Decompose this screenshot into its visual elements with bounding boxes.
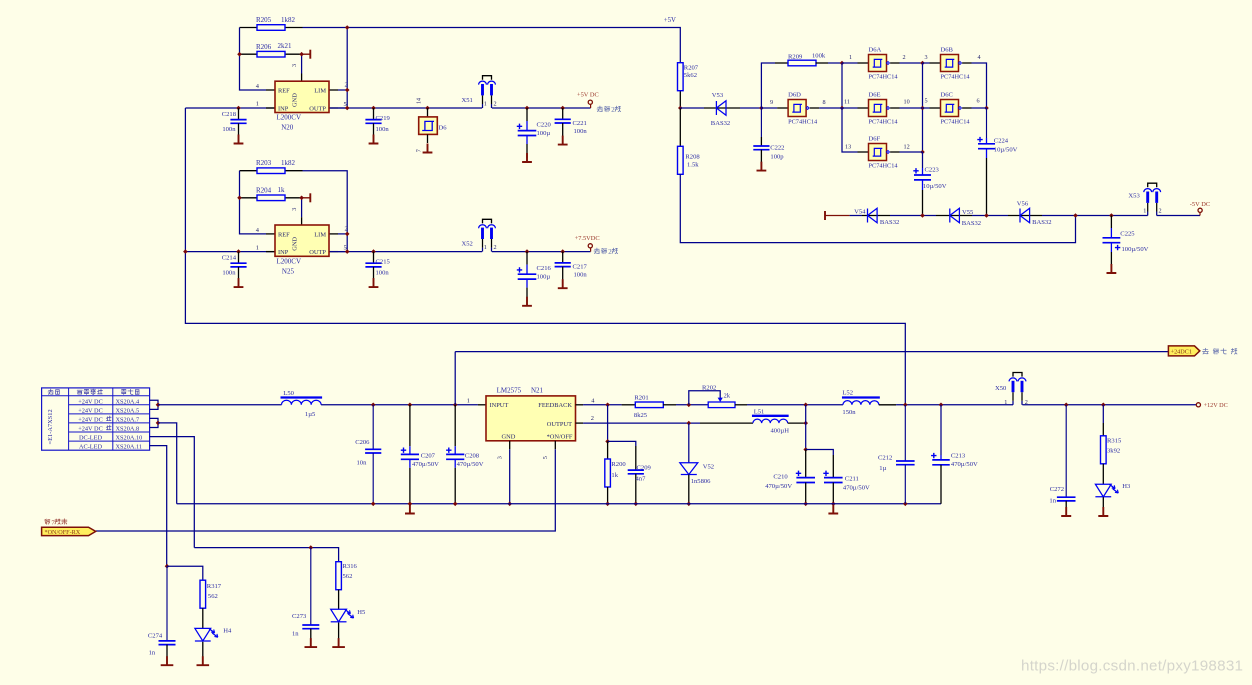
wire bbox=[841, 63, 843, 108]
svg-text:10µ/50V: 10µ/50V bbox=[923, 183, 947, 190]
junction bbox=[1064, 403, 1069, 408]
junction bbox=[687, 502, 692, 507]
resistor R316 bbox=[336, 562, 342, 590]
capacitor C273 bbox=[292, 548, 319, 639]
wire bbox=[890, 215, 936, 217]
svg-text:C215: C215 bbox=[376, 259, 391, 266]
junction bbox=[560, 249, 565, 254]
wire bbox=[704, 107, 740, 109]
svg-text:1: 1 bbox=[256, 101, 259, 108]
svg-text:+24V DC: +24V DC bbox=[78, 398, 103, 405]
diode V53 bbox=[716, 101, 726, 116]
junction bbox=[803, 502, 808, 507]
Schmitt inverter D6B bbox=[930, 55, 972, 72]
wire bbox=[740, 107, 761, 109]
power flag +24DC1 bbox=[1168, 346, 1199, 356]
svg-text:X50: X50 bbox=[995, 385, 1007, 392]
no-connect bar bbox=[309, 50, 311, 59]
wire bbox=[747, 404, 843, 406]
inductor L51 bbox=[752, 416, 789, 423]
resistor R201 bbox=[635, 402, 663, 408]
svg-text:+5V: +5V bbox=[664, 17, 676, 24]
junction bbox=[371, 249, 376, 254]
wire +5V rail bbox=[347, 28, 680, 63]
wire bbox=[900, 107, 923, 109]
wire +12V feed rail bbox=[185, 108, 905, 405]
wire bbox=[238, 267, 240, 279]
svg-text:BAS32: BAS32 bbox=[711, 120, 730, 127]
svg-text:BAS32: BAS32 bbox=[1032, 219, 1051, 226]
svg-text:1: 1 bbox=[484, 100, 487, 107]
wire bbox=[700, 422, 753, 424]
svg-text:D6B: D6B bbox=[941, 46, 954, 53]
LED H3 bbox=[1095, 484, 1118, 497]
ground bbox=[522, 153, 532, 162]
svg-text:C225: C225 bbox=[1120, 231, 1135, 238]
svg-text:100n: 100n bbox=[574, 271, 588, 278]
wire bbox=[240, 27, 258, 29]
svg-text:2k21: 2k21 bbox=[278, 42, 293, 50]
svg-text:R203: R203 bbox=[256, 159, 272, 167]
junction bbox=[920, 61, 925, 66]
wire bbox=[904, 405, 906, 461]
wire bbox=[240, 171, 267, 234]
svg-text:XS20A.4: XS20A.4 bbox=[116, 398, 140, 405]
capacitor C210 bbox=[765, 450, 815, 504]
junction bbox=[939, 403, 944, 408]
wire bbox=[1110, 228, 1112, 238]
wire bbox=[373, 108, 375, 120]
svg-text:1: 1 bbox=[1143, 208, 1146, 215]
svg-text:11: 11 bbox=[844, 98, 850, 105]
junction bbox=[309, 545, 314, 550]
svg-text:C208: C208 bbox=[465, 453, 480, 460]
svg-text:C213: C213 bbox=[951, 452, 966, 459]
wire bbox=[879, 404, 896, 406]
wire bbox=[1008, 215, 1042, 217]
wire bbox=[1065, 501, 1067, 507]
svg-text:C274: C274 bbox=[148, 633, 163, 640]
capacitor bbox=[896, 461, 915, 465]
svg-text:DC-LED: DC-LED bbox=[79, 435, 103, 442]
svg-text:C272: C272 bbox=[1050, 486, 1064, 493]
junction bbox=[605, 439, 610, 444]
svg-text:1n: 1n bbox=[1049, 497, 1056, 504]
svg-text:5: 5 bbox=[344, 101, 347, 108]
wire bbox=[607, 441, 609, 459]
capacitor C223 bbox=[913, 166, 946, 215]
wire bbox=[285, 197, 302, 199]
inductor L50 bbox=[281, 398, 323, 405]
wire bbox=[509, 441, 511, 449]
svg-text:C218: C218 bbox=[222, 111, 237, 118]
ground bbox=[558, 279, 568, 288]
svg-text:470µ/50V: 470µ/50V bbox=[951, 461, 978, 468]
svg-text:100µ: 100µ bbox=[537, 273, 551, 280]
capacitor bbox=[230, 263, 246, 267]
wire bbox=[409, 460, 411, 468]
wire bbox=[900, 62, 923, 64]
svg-text:X53: X53 bbox=[1128, 193, 1140, 200]
wire bbox=[1199, 212, 1201, 215]
capacitor C209 bbox=[628, 446, 652, 504]
svg-text:470µ/50V: 470µ/50V bbox=[457, 461, 484, 468]
wire bbox=[775, 62, 788, 64]
svg-text:1n: 1n bbox=[149, 649, 156, 656]
wire bbox=[266, 233, 275, 235]
resistor R209 bbox=[788, 60, 816, 66]
wire bbox=[583, 422, 700, 424]
wire +7.5V row bbox=[185, 251, 482, 253]
capacitor C224 bbox=[977, 137, 1017, 216]
svg-text:R200: R200 bbox=[611, 461, 626, 468]
svg-text:XS20A.5: XS20A.5 bbox=[116, 407, 140, 414]
capacitor C208 bbox=[446, 405, 484, 504]
wire bbox=[1102, 497, 1104, 507]
junction bbox=[237, 196, 242, 201]
wire bbox=[806, 450, 834, 456]
svg-text:R206: R206 bbox=[256, 43, 272, 51]
resistor R315 bbox=[1101, 436, 1107, 464]
wire bbox=[760, 137, 762, 146]
note to sheet 7 bbox=[1203, 348, 1237, 354]
svg-text:+7.5VDC: +7.5VDC bbox=[575, 235, 600, 242]
wire bbox=[986, 138, 988, 144]
svg-text:1: 1 bbox=[256, 244, 259, 251]
capacitor C211 bbox=[823, 455, 870, 504]
junction bbox=[803, 403, 808, 408]
ground bbox=[332, 638, 345, 647]
svg-text:2: 2 bbox=[591, 415, 594, 422]
svg-text:C223: C223 bbox=[925, 166, 940, 173]
wire bbox=[583, 404, 622, 406]
svg-text:3: 3 bbox=[291, 208, 298, 211]
wire bbox=[735, 404, 747, 406]
svg-text:AC-LED: AC-LED bbox=[79, 444, 103, 451]
svg-text:+12V DC: +12V DC bbox=[1204, 402, 1228, 409]
terminal +7.5VDC bbox=[588, 244, 592, 248]
svg-text:100p: 100p bbox=[770, 153, 784, 160]
ground bbox=[369, 135, 379, 144]
wire bbox=[607, 405, 609, 442]
wire bbox=[1102, 464, 1104, 484]
wire bbox=[321, 404, 478, 406]
wire bbox=[427, 134, 429, 143]
junction bbox=[831, 502, 836, 507]
wire bbox=[1110, 216, 1112, 229]
wire bbox=[302, 197, 310, 199]
wire bbox=[972, 215, 1008, 217]
connector X50 bbox=[1009, 373, 1026, 405]
svg-text:3k92: 3k92 bbox=[1107, 448, 1120, 455]
wire bbox=[828, 62, 842, 64]
svg-text:C210: C210 bbox=[773, 473, 788, 480]
wire bbox=[679, 91, 681, 108]
junction bbox=[453, 502, 458, 507]
ground bbox=[1098, 507, 1108, 516]
wire bbox=[301, 217, 303, 225]
wire bbox=[922, 152, 924, 168]
wire bbox=[576, 404, 584, 406]
wire bbox=[986, 158, 988, 216]
junction bbox=[803, 421, 808, 426]
wire bbox=[372, 405, 374, 450]
svg-text:C222: C222 bbox=[770, 144, 784, 151]
potentiometer R202 bbox=[689, 384, 735, 407]
wire bbox=[1110, 252, 1112, 265]
junction bbox=[634, 502, 639, 507]
wire wiper bbox=[689, 391, 720, 405]
wire bbox=[373, 123, 375, 135]
junction bbox=[560, 106, 565, 111]
capacitor bbox=[446, 454, 464, 459]
inductor L52 bbox=[842, 398, 880, 405]
wire bbox=[302, 53, 310, 55]
svg-text:1: 1 bbox=[849, 54, 852, 61]
diode V52 bbox=[680, 463, 698, 475]
capacitor C220 bbox=[517, 108, 552, 158]
wire bbox=[301, 74, 303, 82]
junction bbox=[984, 213, 989, 218]
wire bbox=[150, 418, 158, 427]
wire bbox=[427, 108, 429, 117]
wire bbox=[167, 566, 203, 580]
capacitor bbox=[628, 470, 644, 474]
svg-text:12: 12 bbox=[904, 143, 910, 150]
wire bbox=[509, 449, 511, 504]
junction bbox=[840, 61, 845, 66]
wire bbox=[805, 405, 807, 450]
wire bbox=[285, 27, 303, 29]
svg-text:C220: C220 bbox=[537, 121, 552, 128]
svg-text:2: 2 bbox=[345, 82, 348, 89]
wire bbox=[904, 465, 906, 504]
svg-text:C214: C214 bbox=[222, 254, 237, 261]
wire bbox=[842, 62, 858, 64]
svg-text:C224: C224 bbox=[994, 137, 1009, 144]
junction bbox=[156, 403, 161, 408]
svg-text:3: 3 bbox=[497, 456, 504, 459]
svg-text:10µ/50V: 10µ/50V bbox=[994, 147, 1018, 154]
junction bbox=[678, 106, 683, 111]
connector X53 bbox=[1144, 183, 1161, 215]
wire bbox=[266, 89, 275, 91]
wire bbox=[202, 608, 204, 628]
svg-text:XS20A.11: XS20A.11 bbox=[116, 444, 143, 451]
wire bbox=[526, 136, 528, 144]
no-connect bar bbox=[309, 193, 311, 202]
svg-text:GND: GND bbox=[502, 434, 516, 441]
ground bbox=[369, 278, 379, 287]
note to sheet 2 bbox=[597, 106, 621, 114]
capacitor bbox=[159, 641, 176, 645]
svg-text:V53: V53 bbox=[712, 92, 724, 99]
wire bbox=[454, 405, 456, 446]
svg-text:XS20A.7: XS20A.7 bbox=[116, 416, 140, 423]
svg-text:C273: C273 bbox=[292, 613, 307, 620]
LED H5 bbox=[331, 609, 354, 622]
connector X51 bbox=[479, 76, 496, 108]
svg-text:4: 4 bbox=[978, 54, 981, 61]
wire bbox=[338, 590, 340, 610]
svg-text:REF: REF bbox=[278, 88, 290, 95]
wire bbox=[166, 645, 168, 657]
svg-text:1k: 1k bbox=[278, 186, 286, 194]
resistor R317 bbox=[200, 580, 206, 608]
svg-text:OUTP: OUTP bbox=[309, 105, 326, 112]
resistor R204 bbox=[257, 195, 285, 201]
junction bbox=[345, 232, 350, 237]
capacitor C207 bbox=[401, 405, 439, 504]
svg-text:GND: GND bbox=[292, 237, 299, 251]
wire bbox=[266, 107, 275, 109]
terminal -5V DC bbox=[1198, 208, 1202, 212]
junction bbox=[1101, 403, 1106, 408]
wire bbox=[338, 623, 340, 639]
svg-text:C217: C217 bbox=[573, 263, 588, 270]
junction bbox=[156, 421, 161, 426]
svg-text:+5V DC: +5V DC bbox=[577, 92, 599, 99]
diode V55 bbox=[950, 208, 960, 223]
wire bbox=[266, 251, 275, 253]
capacitor C214 bbox=[222, 252, 247, 279]
capacitor C212 bbox=[878, 405, 915, 504]
svg-text:V56: V56 bbox=[1017, 200, 1029, 207]
wire bbox=[492, 107, 591, 109]
svg-text:X51: X51 bbox=[462, 97, 473, 104]
wire bbox=[301, 198, 303, 217]
wire bbox=[526, 252, 528, 265]
svg-text:R205: R205 bbox=[256, 16, 272, 24]
ground bbox=[405, 505, 415, 514]
svg-text:C211: C211 bbox=[845, 475, 859, 482]
wire bbox=[240, 170, 258, 172]
svg-text:PC74HC14: PC74HC14 bbox=[941, 74, 971, 81]
capacitor C213 bbox=[931, 405, 978, 504]
junction bbox=[984, 106, 989, 111]
wire bbox=[526, 121, 528, 131]
wire bbox=[454, 446, 456, 454]
wire bbox=[805, 450, 807, 478]
svg-text:-5V DC: -5V DC bbox=[1190, 201, 1210, 208]
junction bbox=[920, 106, 925, 111]
wire bbox=[680, 107, 704, 109]
svg-text:1n5806: 1n5806 bbox=[691, 478, 711, 485]
svg-text:C221: C221 bbox=[573, 120, 587, 127]
capacitor C218 bbox=[222, 108, 247, 135]
junction bbox=[236, 249, 241, 254]
svg-text:REF: REF bbox=[278, 231, 290, 238]
wire bbox=[454, 460, 456, 468]
ground bbox=[197, 656, 210, 665]
diode V56 bbox=[1020, 208, 1030, 223]
wire bbox=[832, 455, 834, 478]
svg-text:FEEDBACK: FEEDBACK bbox=[538, 402, 572, 409]
wire bbox=[608, 441, 636, 446]
svg-text:2: 2 bbox=[345, 225, 348, 232]
svg-text:+24V DC: +24V DC bbox=[78, 425, 103, 432]
junction bbox=[408, 403, 413, 408]
wire bbox=[240, 53, 258, 55]
svg-text:7: 7 bbox=[417, 149, 423, 152]
svg-text:1.5k: 1.5k bbox=[687, 162, 699, 169]
wire bbox=[760, 108, 762, 137]
svg-text:R202: R202 bbox=[702, 384, 716, 391]
svg-text:1µ: 1µ bbox=[879, 465, 886, 472]
capacitor bbox=[1103, 238, 1121, 243]
wire bbox=[202, 642, 204, 657]
svg-text:C216: C216 bbox=[537, 265, 552, 272]
svg-text:9: 9 bbox=[770, 99, 773, 106]
Schmitt inverter D6F bbox=[858, 144, 900, 161]
terminal +5V DC bbox=[588, 100, 592, 104]
svg-text:D6F: D6F bbox=[869, 135, 881, 142]
wire bbox=[554, 441, 556, 449]
capacitor bbox=[365, 449, 381, 453]
junction bbox=[605, 403, 610, 408]
junction bbox=[1073, 213, 1078, 218]
svg-text:PC74HC14: PC74HC14 bbox=[788, 119, 818, 126]
capacitor C274 bbox=[148, 566, 176, 657]
svg-text:2: 2 bbox=[608, 249, 612, 256]
svg-text:XS20A.8: XS20A.8 bbox=[116, 425, 140, 432]
svg-text:C207: C207 bbox=[421, 453, 436, 460]
svg-text:N25: N25 bbox=[282, 267, 295, 275]
capacitor bbox=[302, 625, 319, 629]
svg-text:*ON/OFF: *ON/OFF bbox=[547, 434, 573, 441]
svg-text:5: 5 bbox=[344, 245, 347, 252]
wire AC-LED bbox=[150, 446, 167, 567]
svg-text:4n7: 4n7 bbox=[636, 476, 647, 483]
wire bbox=[303, 27, 348, 29]
capacitor bbox=[824, 478, 843, 483]
wire bbox=[338, 107, 347, 109]
wire bbox=[940, 455, 942, 460]
wire bbox=[1102, 423, 1104, 436]
wire bbox=[240, 197, 258, 199]
wire +5VDC row bbox=[185, 107, 482, 109]
capacitor C225 bbox=[1103, 216, 1149, 265]
wire bbox=[194, 548, 338, 562]
resistor R200 bbox=[605, 459, 611, 487]
wire bbox=[238, 123, 240, 135]
wire bbox=[607, 487, 609, 504]
svg-text:BAS32: BAS32 bbox=[962, 220, 981, 227]
wire bbox=[923, 107, 930, 109]
svg-text:400µH: 400µH bbox=[771, 428, 790, 435]
wire bbox=[761, 63, 775, 108]
svg-text:100n: 100n bbox=[222, 269, 236, 276]
capacitor bbox=[555, 119, 571, 123]
wire bbox=[936, 215, 972, 217]
capacitor C206 bbox=[355, 405, 381, 504]
wire bbox=[590, 104, 592, 108]
ground bbox=[522, 297, 532, 306]
svg-text:H4: H4 bbox=[223, 628, 232, 635]
svg-text:5: 5 bbox=[542, 456, 549, 459]
svg-text:L51: L51 bbox=[754, 408, 765, 415]
wire bbox=[635, 446, 637, 470]
svg-text:100n: 100n bbox=[222, 126, 236, 133]
wire bbox=[526, 144, 528, 158]
wire bbox=[1042, 215, 1148, 217]
wire bbox=[940, 465, 942, 504]
ground bbox=[161, 656, 174, 665]
wire bbox=[679, 108, 681, 146]
Schmitt inverter D6D bbox=[777, 100, 819, 117]
wire bbox=[862, 215, 890, 217]
wire bbox=[760, 150, 762, 162]
